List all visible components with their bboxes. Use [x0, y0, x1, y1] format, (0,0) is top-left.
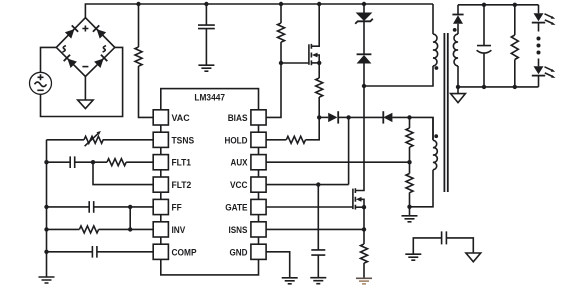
junction: divider mid node (AUX)	[407, 160, 411, 164]
junction: secondary bottom node	[456, 85, 460, 89]
junction: rail at VAC resistor	[136, 2, 140, 6]
junction: FLT node	[91, 160, 95, 164]
capacitor (COMP series)	[92, 246, 97, 258]
transistor Q1 (startup NMOS) gate bar	[308, 44, 310, 65]
pin box GATE	[251, 199, 266, 214]
wire: VCC cap branch	[317, 185, 319, 250]
resistor (VAC sense)	[135, 4, 153, 117]
junction: FF link node	[128, 205, 132, 209]
wire: aux top to winding	[410, 117, 434, 139]
pin box FLT1	[153, 155, 168, 170]
wire: AC source to bridge left node	[41, 47, 57, 72]
wire: FF-INV link	[129, 207, 131, 230]
resistor (BIAS pull-up)	[266, 4, 285, 117]
transformer aux winding	[410, 117, 438, 206]
junction: bus at FF	[44, 205, 48, 209]
ground (input cap)	[198, 65, 214, 71]
secondary phase dot	[453, 28, 457, 32]
wire: TSNS row	[47, 139, 154, 141]
ground (GND pin)	[282, 278, 298, 284]
aux phase dot	[434, 134, 438, 138]
svg-text:GATE: GATE	[225, 203, 247, 214]
transistor Q2 source stub	[355, 206, 364, 208]
bridge diode D2 (upper-left, points to top node)	[65, 25, 78, 38]
transistor Q1 arrow (body)	[312, 53, 318, 58]
transformer secondary winding	[453, 24, 458, 87]
ground (bridge, open triangle)	[78, 100, 93, 109]
wire: FLT2 from FLT node	[93, 162, 153, 184]
capacitor (FF series)	[89, 201, 94, 213]
wire: diode node down to VCC row	[348, 117, 350, 184]
wire: secondary ground stub	[457, 87, 459, 94]
pin box VAC	[153, 110, 168, 125]
LED D5 emission arrows	[545, 14, 553, 17]
capacitor (input filter)	[198, 4, 215, 65]
wire: GATE row	[266, 206, 353, 208]
transistor Q2 arrow (body)	[356, 197, 362, 202]
bridge diode D3 (upper-right, points to top node)	[93, 25, 106, 38]
diode (clamp blocking, points up)	[357, 53, 372, 55]
wire: VCC row	[266, 184, 349, 186]
junction: Q1 source/body tie	[317, 61, 321, 65]
LED D6 (bottom of string)	[538, 59, 540, 67]
svg-text:GND: GND	[230, 247, 248, 258]
pin box FLT2	[153, 177, 168, 192]
ground (VCC cap)	[310, 278, 326, 284]
pin box AUX	[251, 155, 266, 170]
wire: COMP row right	[97, 251, 153, 253]
junction: rail at BIAS resistor	[279, 2, 283, 6]
svg-text:ISNS: ISNS	[229, 225, 248, 236]
junction: output cap top	[482, 3, 486, 7]
pin box HOLD	[251, 132, 266, 147]
svg-text:FF: FF	[172, 203, 182, 214]
svg-text:BIAS: BIAS	[228, 113, 248, 124]
resistor (divider lower)	[406, 162, 413, 207]
junction: rail at startup FET drain	[317, 2, 321, 6]
bridge diamond outline	[56, 18, 115, 77]
resistor (FLT1)	[107, 159, 153, 166]
wire: Q2 source down	[363, 207, 365, 229]
junction: HOLD/startup-source node	[317, 115, 321, 119]
resistor (INV)	[79, 226, 153, 233]
svg-text:INV: INV	[172, 225, 186, 236]
string continuation dots	[537, 37, 541, 41]
wire: top rail from bridge top	[85, 4, 433, 18]
junction: bleeder top	[513, 3, 517, 7]
zener diode (clamp TVS)	[363, 4, 365, 13]
diode (secondary rectifier, points up)	[457, 5, 459, 14]
ground (left bus)	[39, 277, 55, 283]
pin box INV	[153, 222, 168, 237]
svg-text:TSNS: TSNS	[172, 135, 195, 146]
pin box FF	[153, 199, 168, 214]
wire: clamp bottom to primary bottom node	[363, 64, 365, 87]
svg-text:HOLD: HOLD	[225, 135, 248, 146]
wire: secondary top rail	[458, 4, 539, 6]
svg-text:VCC: VCC	[230, 180, 248, 191]
svg-text:AUX: AUX	[231, 158, 249, 169]
junction: primary bottom / drain node	[362, 84, 366, 88]
junction: rail at input cap	[204, 2, 208, 6]
transistor Q1 body tie to source	[317, 55, 319, 63]
bridge diode D1 (lower-left, points to left node)	[64, 55, 77, 68]
junction: divider bottom node	[407, 205, 411, 209]
junction: aux top node	[407, 115, 411, 119]
transistor Q2 body tie to source	[361, 199, 364, 207]
wire: GND pin to ground	[266, 252, 290, 278]
transistor Q1 drain stub	[311, 4, 319, 46]
wire: FF row left	[47, 206, 90, 208]
pin box BIAS	[251, 110, 266, 125]
capacitor C-Y (isolation)	[442, 231, 447, 244]
transistor Q2 drain stub	[355, 86, 364, 191]
resistor (HOLD)	[286, 117, 319, 143]
op-amp U1 LM3447 body	[161, 89, 259, 275]
junction: rail at clamp	[362, 2, 366, 6]
bridge AC squiggle right	[103, 46, 106, 52]
pin box GND	[251, 244, 266, 259]
transformer primary winding	[433, 4, 438, 66]
bridge plus label	[82, 26, 88, 32]
bridge minus label	[82, 66, 88, 68]
resistor (bleeder)	[511, 5, 518, 87]
wire: AUX row	[266, 161, 410, 163]
primary phase dot	[435, 66, 439, 70]
junction: Q2 source/body tie	[362, 205, 366, 209]
wire: FF row right	[94, 206, 154, 208]
transistor Q1 body bar segments	[310, 44, 312, 65]
ground (sense, special colored)	[356, 277, 372, 279]
junction: VCC diode node	[346, 115, 350, 119]
capacitor (output, polarized)	[477, 5, 492, 87]
svg-text:VAC: VAC	[172, 113, 190, 124]
wire: bridge bottom to ground	[84, 77, 86, 101]
resistor (divider upper)	[406, 117, 413, 162]
junction: bus at INV	[44, 227, 48, 231]
ground (Y-cap left)	[405, 254, 421, 260]
transistor Q1 source stub	[311, 62, 319, 64]
junction: bus at FLT1	[44, 160, 48, 164]
ground (divider/aux)	[402, 216, 418, 222]
svg-text:FLT2: FLT2	[172, 180, 192, 191]
diode (aux to VCC, points left)	[349, 116, 384, 118]
wire: INV row left	[47, 228, 80, 230]
pin box COMP	[153, 244, 168, 259]
junction: bus at COMP	[44, 250, 48, 254]
wire: FLT1 row mid	[75, 161, 107, 163]
LED D6 emission arrows	[545, 67, 553, 71]
junction: output cap bottom	[482, 85, 486, 89]
capacitor (VCC decoupling)	[311, 250, 325, 278]
junction: BIAS riser gate tap	[279, 61, 283, 65]
svg-text:LM3447: LM3447	[194, 93, 225, 104]
wire: clamp middle	[363, 21, 365, 54]
svg-text:COMP: COMP	[172, 247, 198, 258]
wire: divider bottom to ground	[409, 207, 411, 216]
transistor Q2 body bar segments	[354, 188, 356, 209]
pin box TSNS	[153, 132, 168, 147]
AC source V1	[30, 72, 52, 94]
resistor (current sense)	[361, 229, 368, 278]
wire: primary bottom	[364, 66, 433, 86]
bridge diode D4 (lower-right, points to right node)	[94, 55, 107, 68]
transformer core	[444, 33, 447, 192]
resistor (NTC thermistor, TSNS)	[84, 136, 103, 143]
resistor (startup source)	[316, 63, 323, 118]
junction: bleeder bottom	[513, 85, 517, 89]
wire: ISNS row	[266, 228, 364, 230]
ground (Y-cap right, open triangle)	[466, 253, 481, 262]
wire: COMP row left	[47, 251, 93, 253]
wire: gate lead of startup FET	[281, 62, 309, 64]
junction: INV link node	[128, 227, 132, 231]
ground (secondary, open triangle)	[451, 94, 466, 103]
wire: left bias bus	[46, 140, 48, 277]
diode (hold to VCC)	[319, 116, 328, 118]
wire: secondary bottom rail	[458, 86, 539, 88]
pin box VCC	[251, 177, 266, 192]
capacitor (FLT1 series)	[70, 156, 75, 168]
wire: FLT1 row left	[47, 161, 71, 163]
wire: Y-cap left lead	[413, 238, 441, 254]
arrow of variable resistor	[85, 133, 99, 146]
wire: HOLD row	[266, 139, 286, 141]
svg-text:FLT1: FLT1	[172, 158, 192, 169]
pin box ISNS	[251, 222, 266, 237]
bridge AC squiggle left	[63, 46, 66, 52]
wire: AC source to bridge right node (bottom loop)	[41, 47, 123, 116]
junction: ISNS node	[362, 227, 366, 231]
junction: VCC cap tap	[316, 182, 320, 186]
transistor Q2 (power NMOS) gate bar	[352, 189, 354, 210]
wire: Y-cap right lead	[446, 238, 473, 253]
LED D5 (top of string)	[538, 5, 540, 14]
